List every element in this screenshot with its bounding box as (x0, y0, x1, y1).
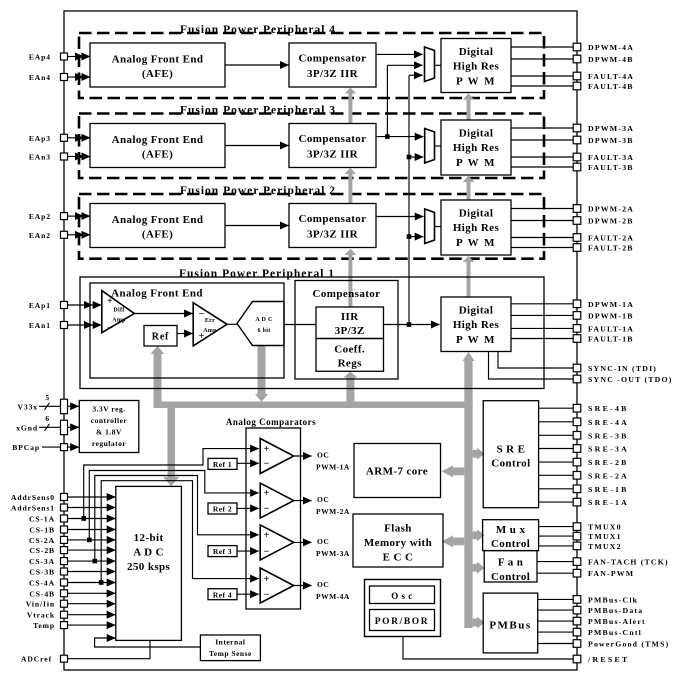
svg-text:Diff: Diff (113, 308, 125, 314)
svg-text:M u x: M u x (496, 524, 526, 536)
svg-text:E C C: E C C (383, 552, 414, 564)
svg-text:3P/3Z IIR: 3P/3Z IIR (307, 149, 359, 161)
svg-text:DPWM-1B: DPWM-1B (588, 311, 634, 320)
svg-text:−: − (264, 546, 270, 557)
svg-text:PowerGood (TMS): PowerGood (TMS) (588, 640, 669, 649)
svg-text:Temp: Temp (33, 621, 55, 630)
svg-text:TMUX1: TMUX1 (588, 532, 622, 541)
svg-text:12-bit: 12-bit (134, 532, 164, 544)
svg-text:DPWM-3B: DPWM-3B (588, 136, 634, 145)
svg-text:Digital: Digital (459, 46, 494, 58)
svg-text:OC: OC (317, 495, 329, 504)
svg-text:PWM-4A: PWM-4A (316, 592, 350, 601)
svg-text:P W M: P W M (456, 76, 496, 88)
svg-text:S R E: S R E (496, 444, 525, 456)
svg-text:CS-2A: CS-2A (29, 536, 55, 545)
svg-text:Amp: Amp (112, 318, 126, 324)
svg-text:3P/3Z: 3P/3Z (335, 325, 365, 337)
svg-text:Ref 3: Ref 3 (213, 547, 232, 556)
svg-text:DPWM-3A: DPWM-3A (588, 124, 634, 133)
svg-text:controller: controller (91, 416, 128, 425)
svg-text:CS-4A: CS-4A (29, 579, 55, 588)
svg-text:High Res: High Res (453, 142, 500, 154)
svg-text:EAp2: EAp2 (29, 212, 51, 221)
svg-text:Ref: Ref (152, 332, 169, 343)
svg-text:EAn2: EAn2 (29, 231, 51, 240)
svg-text:SRE-2A: SRE-2A (588, 471, 629, 480)
svg-text:−: − (199, 309, 205, 320)
svg-text:+: + (264, 488, 270, 499)
svg-text:DPWM-1A: DPWM-1A (588, 300, 634, 309)
svg-text:(AFE): (AFE) (142, 149, 173, 161)
svg-text:IIR: IIR (341, 311, 359, 323)
svg-text:AddrSens1: AddrSens1 (11, 504, 55, 513)
svg-text:FAULT-4A: FAULT-4A (588, 72, 634, 81)
svg-text:BPCap: BPCap (12, 443, 40, 452)
svg-text:+: + (264, 574, 270, 585)
svg-text:SRE-2B: SRE-2B (588, 458, 629, 467)
svg-text:Digital: Digital (459, 305, 494, 317)
svg-text:3P/3Z IIR: 3P/3Z IIR (307, 229, 359, 241)
svg-text:High Res: High Res (453, 61, 500, 73)
svg-text:SRE-3A: SRE-3A (588, 445, 629, 454)
svg-text:FAULT-3A: FAULT-3A (588, 153, 634, 162)
svg-text:PMBus: PMBus (489, 620, 531, 632)
svg-text:High Res: High Res (453, 319, 500, 331)
svg-text:Analog Front End: Analog Front End (111, 288, 203, 300)
svg-text:PWM-3A: PWM-3A (316, 549, 350, 558)
svg-text:Internal: Internal (215, 638, 245, 647)
svg-text:SRE-1A: SRE-1A (588, 498, 629, 507)
svg-text:EAn3: EAn3 (29, 153, 51, 162)
svg-text:F a n: F a n (498, 557, 523, 569)
svg-text:−: − (107, 323, 113, 334)
svg-text:P W M: P W M (456, 237, 496, 249)
svg-text:Flash: Flash (384, 523, 412, 535)
svg-text:DPWM-4A: DPWM-4A (588, 43, 634, 52)
svg-text:PMBus-Cntl: PMBus-Cntl (588, 628, 642, 637)
svg-text:EAp3: EAp3 (29, 134, 51, 143)
svg-text:DPWM-4B: DPWM-4B (588, 55, 634, 64)
svg-text:+: + (264, 530, 270, 541)
svg-text:ADCref: ADCref (21, 655, 52, 664)
svg-text:Memory with: Memory with (364, 537, 432, 549)
svg-text:FAN-PWM: FAN-PWM (588, 569, 634, 578)
svg-text:Control: Control (491, 538, 530, 550)
svg-text:High Res: High Res (453, 222, 500, 234)
svg-text:TMUX0: TMUX0 (588, 523, 622, 532)
svg-text:P W M: P W M (456, 334, 496, 346)
svg-text:xGnd: xGnd (16, 423, 38, 432)
svg-text:FAULT-4B: FAULT-4B (588, 82, 634, 91)
svg-text:POR/BOR: POR/BOR (375, 617, 429, 627)
svg-text:Amp: Amp (203, 328, 217, 334)
svg-text:CS-3B: CS-3B (29, 568, 55, 577)
svg-text:SRE-1B: SRE-1B (588, 485, 629, 494)
svg-text:DPWM-2A: DPWM-2A (588, 205, 634, 214)
svg-text:Analog Front End: Analog Front End (112, 54, 204, 66)
svg-text:Coeff.: Coeff. (334, 344, 365, 356)
svg-text:P W M: P W M (456, 157, 496, 169)
svg-text:−: − (264, 589, 270, 600)
svg-text:Compensator: Compensator (299, 133, 367, 145)
svg-text:O s c: O s c (391, 591, 413, 601)
svg-text:3.3V reg.: 3.3V reg. (92, 405, 125, 414)
svg-text:Analog Comparators: Analog Comparators (226, 417, 316, 427)
svg-text:SYNC -OUT (TDO): SYNC -OUT (TDO) (588, 375, 673, 384)
svg-text:EAn4: EAn4 (29, 73, 51, 82)
svg-text:FAN-TACH (TCK): FAN-TACH (TCK) (588, 558, 669, 567)
svg-text:EAn1: EAn1 (29, 321, 51, 330)
svg-text:& 1.8V: & 1.8V (96, 428, 122, 437)
svg-text:(AFE): (AFE) (142, 68, 173, 80)
svg-text:Temp Sense: Temp Sense (209, 649, 252, 658)
svg-text:PWM-2A: PWM-2A (316, 507, 350, 516)
svg-text:V33x: V33x (18, 402, 38, 411)
svg-text:+: + (264, 444, 270, 455)
svg-text:OC: OC (317, 580, 329, 589)
svg-text:250 ksps: 250 ksps (127, 561, 171, 573)
svg-text:Fusion Power Peripheral 1: Fusion Power Peripheral 1 (179, 268, 335, 280)
svg-text:EAp1: EAp1 (29, 301, 51, 310)
svg-text:Compensator: Compensator (299, 213, 367, 225)
svg-text:CS-1B: CS-1B (29, 526, 55, 535)
svg-text:CS-3A: CS-3A (29, 557, 55, 566)
svg-text:FAULT-1B: FAULT-1B (588, 335, 634, 344)
svg-text:PMBus-Data: PMBus-Data (588, 606, 643, 615)
svg-text:−: − (264, 459, 270, 470)
svg-text:Ref 4: Ref 4 (213, 590, 232, 599)
svg-text:−: − (264, 504, 270, 515)
svg-text:EAp4: EAp4 (29, 53, 51, 62)
svg-text:TMUX2: TMUX2 (588, 542, 622, 551)
svg-text:Fusion Power Peripheral 4: Fusion Power Peripheral 4 (180, 24, 336, 36)
svg-text:OC: OC (317, 537, 329, 546)
svg-text:SRE-4A: SRE-4A (588, 418, 629, 427)
svg-text:regulator: regulator (92, 439, 127, 448)
svg-text:+: + (107, 296, 113, 307)
svg-text:A D C: A D C (133, 547, 164, 559)
svg-text:CS-2B: CS-2B (29, 546, 55, 555)
svg-text:Vtrack: Vtrack (27, 611, 55, 620)
svg-text:6: 6 (45, 414, 49, 423)
svg-text:DPWM-2B: DPWM-2B (588, 217, 634, 226)
svg-text:FAULT-3B: FAULT-3B (588, 163, 634, 172)
svg-text:Fusion Power Peripheral 3: Fusion Power Peripheral 3 (180, 105, 336, 117)
svg-text:PWM-1A: PWM-1A (316, 463, 350, 472)
svg-text:Compensator: Compensator (313, 288, 381, 300)
svg-text:Err: Err (205, 318, 215, 324)
svg-text:Ref 1: Ref 1 (213, 460, 232, 469)
svg-text:(AFE): (AFE) (142, 229, 173, 241)
svg-text:FAULT-1A: FAULT-1A (588, 324, 634, 333)
svg-text:Analog Front End: Analog Front End (112, 214, 204, 226)
svg-text:/RESET: /RESET (587, 655, 630, 664)
svg-text:Analog Front End: Analog Front End (112, 134, 204, 146)
svg-text:Regs: Regs (338, 358, 363, 370)
svg-text:A D C: A D C (255, 317, 272, 323)
svg-text:Vin/Iin: Vin/Iin (26, 600, 55, 609)
svg-text:FAULT-2B: FAULT-2B (588, 244, 634, 253)
svg-text:OC: OC (317, 451, 329, 460)
svg-text:5: 5 (45, 393, 49, 402)
svg-text:3P/3Z IIR: 3P/3Z IIR (307, 68, 359, 80)
svg-text:CS-1A: CS-1A (29, 515, 55, 524)
svg-text:Control: Control (491, 571, 530, 583)
svg-text:PMBus-Clk: PMBus-Clk (588, 595, 638, 604)
svg-text:SRE-4B: SRE-4B (588, 404, 629, 413)
svg-text:6 bit: 6 bit (257, 328, 270, 334)
svg-text:Digital: Digital (459, 208, 494, 220)
svg-text:PMBus-Alert: PMBus-Alert (588, 617, 646, 626)
svg-text:CS-4B: CS-4B (29, 589, 55, 598)
svg-text:Fusion Power Peripheral 2: Fusion Power Peripheral 2 (180, 185, 336, 197)
svg-text:SRE-3B: SRE-3B (588, 431, 629, 440)
svg-text:Compensator: Compensator (299, 53, 367, 65)
svg-text:AddrSens0: AddrSens0 (11, 493, 55, 502)
svg-text:Digital: Digital (459, 128, 494, 140)
svg-text:SYNC-IN (TDI): SYNC-IN (TDI) (588, 364, 657, 373)
svg-text:Ref 2: Ref 2 (213, 505, 232, 514)
svg-text:FAULT-2A: FAULT-2A (588, 234, 634, 243)
svg-text:ARM-7 core: ARM-7 core (366, 466, 428, 478)
svg-text:Control: Control (491, 458, 530, 470)
